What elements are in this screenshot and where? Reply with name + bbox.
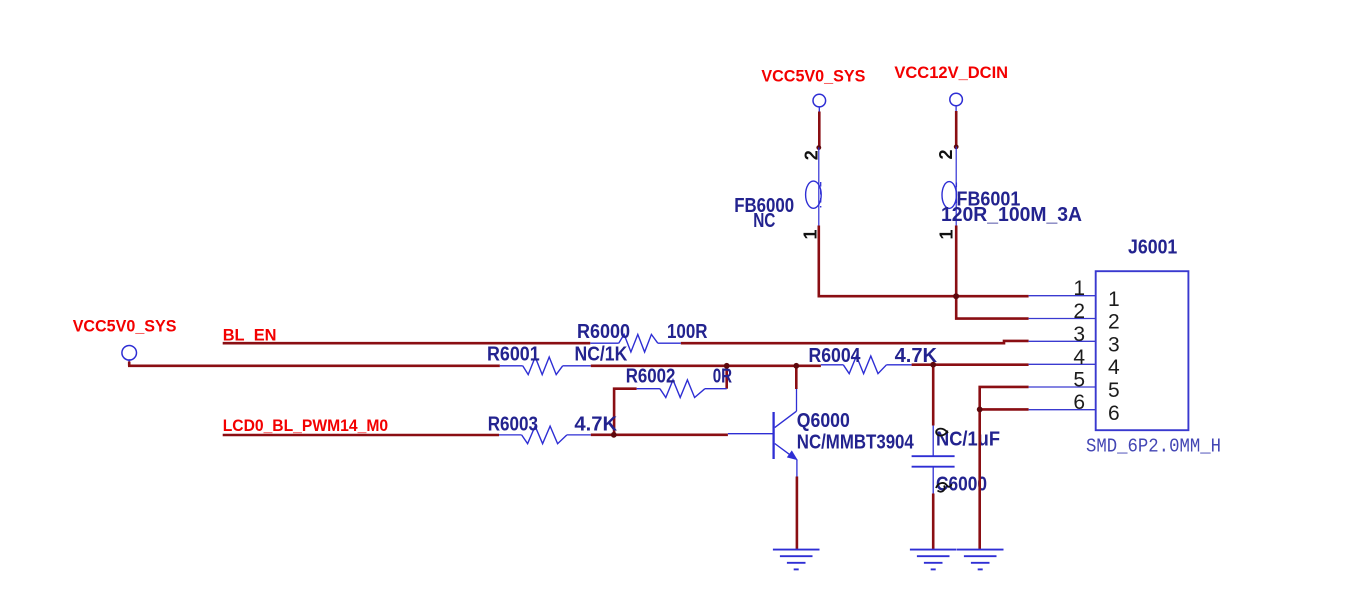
transistor Q6000 collector diagonal [775,411,797,427]
wire FB6001 pin1 down to connector pin2 [956,226,1028,319]
capacitor C6000 plates [912,456,955,467]
svg-text:120R_100M_3A: 120R_100M_3A [941,204,1082,226]
junction R6002 riser on base wire [611,432,617,438]
svg-text:VCC5V0_SYS: VCC5V0_SYS [761,67,865,86]
svg-text:3: 3 [1073,323,1085,346]
ferrite bead FB6001 body [942,147,956,226]
connector J6001 box [1096,271,1189,430]
capacitor C6000 bottom lead [932,467,934,493]
resistor R6001 zigzag [523,357,563,375]
resistor R6000 zigzag [619,334,658,352]
resistor R6000 leads [590,342,681,344]
wire Q6000 collector to row [795,365,798,389]
svg-text:R6002: R6002 [626,366,676,388]
svg-text:3: 3 [1108,333,1120,356]
svg-text:SMD_6P2.0MM_H: SMD_6P2.0MM_H [1086,436,1221,458]
svg-text:6: 6 [1108,402,1120,425]
svg-text:BL_EN: BL_EN [223,326,277,345]
wire VCC5V0_SYS feed to FB6000 pin2 [818,112,821,148]
ground under Q6000 emitter [773,550,820,570]
transistor Q6000 collector lead [796,389,798,411]
wire LCD0_BL_PWM14_M0 to R6003 [223,434,499,437]
wire VCC12V_DCIN feed to FB6001 pin2 [955,111,958,147]
svg-text:R6004: R6004 [809,345,862,367]
pin number squiggle 2 of C6000 [936,483,952,492]
svg-text:J6001: J6001 [1128,237,1177,259]
svg-text:100R: 100R [667,321,708,343]
svg-text:0R: 0R [713,366,733,388]
transistor Q6000 emitter diagonal [775,444,791,456]
svg-text:1: 1 [1073,277,1085,300]
connector pin stubs [1029,296,1096,410]
ground under C6000 [910,550,957,570]
wire from left power port to R6001 [128,362,500,366]
resistor R6003 zigzag [522,426,567,444]
svg-text:NC/1uF: NC/1uF [936,429,1000,451]
pin number squiggle 1 of C6000 [936,429,948,436]
wire R6001 to R6004 row [591,364,821,367]
junction dot at FB6000 pin2 [816,145,821,150]
wire R6004 to connector pin4 [912,363,1029,366]
svg-text:NC: NC [753,210,775,232]
wire Q6000 emitter to ground [796,477,799,550]
wire R6003 to Q6000 base [591,433,728,436]
svg-text:R6003: R6003 [488,414,538,436]
svg-text:6: 6 [1073,391,1085,414]
ground under pin5 pin6 riser [957,550,1004,570]
power port VCC12V_DCIN circle [950,93,963,111]
power port VCC5V0_SYS top circle [813,94,826,112]
svg-text:R6000: R6000 [577,321,630,343]
svg-text:2: 2 [1108,311,1120,334]
power port VCC5V0_SYS left circle [122,346,137,363]
transistor Q6000 emitter arrowhead [787,450,798,460]
wire R6000 to connector pin3 with jog [681,341,1029,343]
svg-text:5: 5 [1108,379,1120,402]
svg-text:VCC5V0_SYS: VCC5V0_SYS [73,317,177,336]
ferrite bead FB6000 body [806,147,822,225]
wire connector pin5 to ground riser [980,387,1029,550]
transistor Q6000 base lead [728,433,773,435]
junction R6002 riser on row [724,363,730,369]
capacitor C6000 top lead [932,426,934,456]
wire capacitor branch from row [932,365,935,426]
junction pin1 row and FB6001 branch [953,293,959,299]
resistor R6002 leads [637,388,727,390]
wire BL_EN to R6000 [223,342,591,345]
svg-text:2: 2 [802,150,822,160]
wire capacitor to ground [932,494,935,550]
svg-text:4: 4 [1108,356,1120,379]
resistor R6002 left wire corner [614,389,637,435]
svg-text:LCD0_BL_PWM14_M0: LCD0_BL_PWM14_M0 [223,416,388,435]
resistor R6002 zigzag [660,380,705,398]
transistor Q6000 base bar [772,412,774,459]
svg-text:1: 1 [936,230,956,240]
junction collector on row [793,363,799,369]
svg-text:4: 4 [1073,346,1085,369]
junction capacitor branch on row [930,362,936,368]
wire connector pin6 to riser [980,408,1029,411]
svg-text:5: 5 [1073,369,1085,392]
svg-text:1: 1 [1108,288,1120,311]
svg-text:VCC12V_DCIN: VCC12V_DCIN [894,63,1008,82]
resistor R6002 right riser to row [725,365,728,389]
resistor R6001 leads [500,365,591,367]
svg-text:4.7K: 4.7K [574,414,617,436]
svg-text:Q6000: Q6000 [797,410,850,432]
wire FB6000 pin1 down and right to connector pin1 [819,226,1029,297]
svg-text:R6001: R6001 [487,344,540,366]
transistor Q6000 emitter lead [796,459,798,476]
svg-text:NC/1K: NC/1K [575,344,628,366]
junction pin6 on riser [977,407,983,413]
svg-text:2: 2 [1073,300,1085,323]
resistor R6004 zigzag [843,356,886,374]
resistor R6004 leads [821,364,912,366]
resistor R6003 leads [499,434,591,436]
svg-text:2: 2 [936,149,956,159]
svg-text:NC/MMBT3904: NC/MMBT3904 [797,432,915,454]
junction dot at FB6001 pin2 [954,144,959,149]
